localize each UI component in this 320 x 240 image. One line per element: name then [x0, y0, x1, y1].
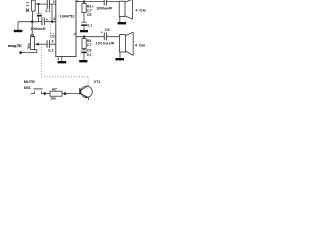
- svg-text:C8: C8: [105, 28, 110, 32]
- wire (mute dashed link to IC): [41, 24, 88, 85]
- node (pin4 junction): [51, 21, 53, 23]
- svg-text:6: 6: [52, 40, 54, 44]
- wire (pot wiper to C2): [35, 43, 47, 45]
- ground: [14, 30, 23, 32]
- svg-text:0,1: 0,1: [87, 53, 92, 57]
- svg-text:100мкФ: 100мкФ: [30, 26, 46, 31]
- svg-text:7: 7: [74, 32, 76, 36]
- wire (riser +V to pin 4): [51, 4, 53, 22]
- wire (+V rail from C1 top to IC pin 2): [35, 3, 56, 5]
- node (junction on ground rail): [31, 20, 34, 23]
- wire (rail to pot top): [31, 22, 33, 37]
- svg-text:SB1: SB1: [24, 86, 31, 90]
- resistor R2: [83, 2, 85, 4]
- pin numbers: [52, 0, 79, 61]
- node: [43, 92, 46, 95]
- ground: [58, 61, 67, 63]
- wire (C1 bottom lead to ground rail): [32, 11, 34, 22]
- node (input terminal): [19, 51, 22, 54]
- capacitor C6 (1000uF output top): [104, 0, 106, 5]
- svg-text:+: +: [46, 18, 48, 22]
- svg-text:R7: R7: [52, 87, 57, 91]
- capacitor C1 (electrolytic, power): [31, 0, 35, 11]
- ground: [80, 30, 88, 32]
- capacitor C8 (1000uF output bottom): [104, 33, 106, 41]
- svg-text:4 Ом: 4 Ом: [135, 8, 146, 13]
- transistor VT1: [81, 86, 92, 97]
- svg-text:50к: 50к: [27, 43, 31, 49]
- svg-text:0,1: 0,1: [87, 24, 92, 28]
- svg-text:C9: C9: [87, 48, 92, 52]
- wire (pin 7 output bottom): [76, 36, 120, 38]
- capacitor C4 (0.1u decoupling, horizontal plates): [38, 4, 40, 22]
- text labels: [8, 0, 146, 100]
- capacitor C2 (0.1u input): [47, 40, 49, 48]
- svg-text:MUTE: MUTE: [24, 79, 35, 84]
- svg-text:1: 1: [77, 0, 79, 2]
- svg-text:VT1: VT1: [94, 80, 101, 84]
- node (junction on +V wire): [37, 3, 39, 5]
- wire (input to pot bottom): [21, 50, 37, 53]
- ground: [79, 60, 87, 62]
- svg-text:4: 4: [53, 17, 55, 21]
- capacitor C3 (0.1u series on top wire): [47, 0, 49, 9]
- wiper arrow: [35, 43, 39, 46]
- node (output junction): [83, 0, 85, 2]
- op-amp U1 LM4752 box: [56, 0, 76, 57]
- wire (C2 to pin 6): [49, 43, 55, 45]
- svg-text:C2: C2: [50, 34, 55, 38]
- wire (BA1 to ground): [119, 17, 121, 22]
- svg-text:+: +: [92, 5, 94, 9]
- ground: [115, 58, 124, 60]
- svg-text:0,1: 0,1: [45, 9, 50, 13]
- svg-text:вход ПК: вход ПК: [8, 43, 22, 48]
- wire (rail down to ground): [17, 22, 19, 30]
- svg-text:C5: C5: [87, 13, 92, 17]
- capacitor C5: [83, 13, 85, 22]
- svg-text:2: 2: [53, 0, 55, 4]
- wire (pin 1 output top): [76, 1, 119, 3]
- capacitor C10 (100uF electrolytic on rail): [42, 17, 44, 25]
- svg-text:LM4752: LM4752: [60, 13, 75, 18]
- resistor R1 (volume pot): [31, 37, 35, 50]
- svg-text:1000мкФ: 1000мкФ: [95, 41, 114, 45]
- svg-text:+: +: [101, 30, 103, 34]
- C1 value marks: [26, 3, 29, 6]
- speaker BA2: [120, 35, 126, 52]
- node: [64, 92, 67, 95]
- wire (pin 3 to ground): [61, 57, 63, 61]
- svg-text:0,1: 0,1: [48, 48, 53, 52]
- wire (BA2 to ground): [119, 52, 121, 58]
- resistor R7: [45, 93, 50, 95]
- svg-text:1000мкФ: 1000мкФ: [96, 7, 112, 11]
- wire: [62, 93, 79, 95]
- switch SB1 (mute button): [31, 91, 45, 93]
- svg-text:3: 3: [57, 57, 59, 61]
- node (output junction): [83, 36, 85, 38]
- resistor R4: [83, 37, 85, 39]
- speaker BA1: [119, 1, 125, 16]
- svg-text:4 Ом: 4 Ом: [135, 43, 146, 48]
- svg-text:2,7: 2,7: [87, 43, 92, 47]
- svg-text:R1: R1: [30, 34, 34, 38]
- wire (ground rail): [18, 21, 56, 23]
- ground: [118, 22, 127, 24]
- capacitor C9: [83, 49, 85, 50]
- svg-text:10к: 10к: [50, 97, 56, 101]
- C1 label glyph: [26, 8, 29, 12]
